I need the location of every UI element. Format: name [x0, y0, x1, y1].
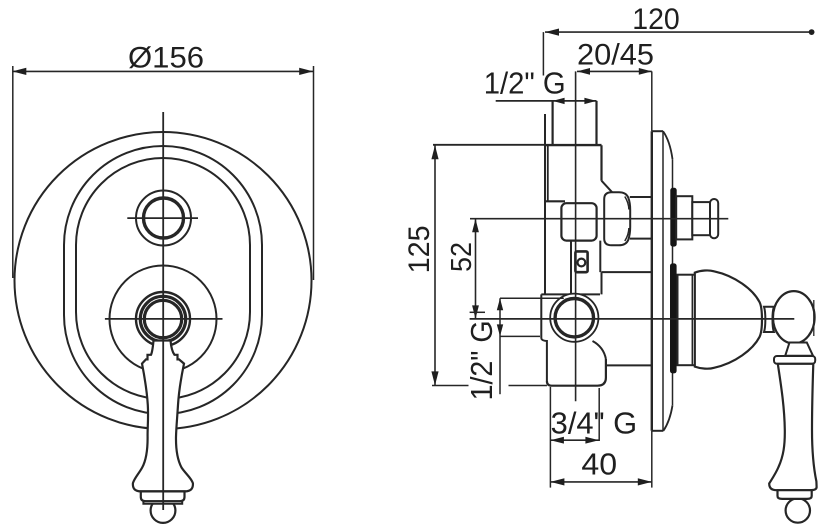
- svg-text:52: 52: [446, 242, 478, 272]
- dimension 125 arrow bottom: [431, 371, 438, 385]
- seal band upper: [670, 188, 676, 247]
- cap dome arc top: [625, 197, 629, 210]
- dimension 20/45 line: [577, 70, 652, 72]
- handle bell: [695, 270, 762, 368]
- lever cap flare: [785, 343, 813, 356]
- wall plate top edge: [652, 130, 663, 132]
- leader arrow down: [497, 324, 503, 336]
- dimension 40 line: [550, 481, 651, 483]
- lever bell step 1: [141, 491, 185, 501]
- lever cap plate: [774, 356, 815, 364]
- hub ring 1: [136, 292, 190, 346]
- lever side outline: [769, 364, 816, 490]
- plate face extension to 40 dim: [651, 431, 653, 488]
- bottom outlet outer circle 3/4G: [550, 294, 598, 342]
- leader top line: [500, 297, 564, 299]
- body chamfer to cap: [602, 181, 613, 193]
- wall plate bevel bottom: [663, 405, 672, 431]
- outlet cap dome: [604, 192, 630, 245]
- dimension Ø156 line: [12, 70, 313, 72]
- vertical centerline / 20-45 extension: [575, 71, 577, 401]
- diverter stem hex: [676, 196, 692, 239]
- lever step side: [778, 490, 812, 499]
- dimension 40 arrow left: [550, 478, 564, 485]
- cap dome arc bottom: [625, 228, 629, 241]
- lower body top edge: [541, 293, 600, 295]
- mounting sleeve: [602, 272, 652, 365]
- body left inner edge: [547, 146, 549, 202]
- lower centerline: [470, 318, 795, 320]
- diverter knob cap: [710, 199, 718, 238]
- wall plate bevel top: [663, 131, 673, 159]
- leader arrow up: [497, 298, 503, 310]
- neck below nut: [571, 241, 600, 295]
- label 1/2 G lower leader vertical: [499, 298, 501, 394]
- diverter knob outer circle: [136, 191, 191, 246]
- bottom outlet inner circle: [555, 299, 593, 337]
- inlet pipe 1/2G top: [553, 101, 597, 145]
- hub horizontal centerline: [105, 318, 223, 320]
- left view vertical centerline: [162, 112, 164, 510]
- dimension 3/4 arrow left: [550, 437, 564, 444]
- hub ring 2: [140, 296, 185, 341]
- wall plate inner line: [662, 131, 664, 431]
- lower body bottom edge: [547, 359, 606, 386]
- dimension 120 dot: [809, 29, 815, 35]
- collar inner edge: [691, 275, 693, 366]
- lever ball tip: [151, 498, 176, 523]
- dimension 120 extension tick: [542, 32, 544, 75]
- outlet nut block: [561, 203, 596, 240]
- leader arrow left: [553, 98, 565, 104]
- wall plate back edge: [672, 159, 674, 405]
- upper centerline: [470, 218, 728, 220]
- lower body left edge: [540, 294, 542, 338]
- dimension 52 line: [475, 219, 477, 319]
- lever handle front outline: [133, 341, 193, 492]
- svg-text:120: 120: [632, 3, 680, 36]
- lower body block fill: [541, 294, 606, 385]
- handle collar: [678, 275, 696, 366]
- wall plate bottom edge: [652, 430, 664, 432]
- dimension 120 line: [545, 31, 812, 33]
- svg-text:20/45: 20/45: [577, 39, 654, 72]
- label 1/2 G top leader: [496, 100, 597, 102]
- seal band lower: [670, 263, 677, 373]
- body left edge long: [544, 114, 546, 294]
- handle pivot ball: [773, 291, 815, 343]
- handle hub circle: [110, 266, 217, 373]
- valve body block: [545, 145, 602, 201]
- dimension 52 bottom tick: [470, 311, 485, 313]
- lower body fillet: [593, 341, 606, 359]
- diverter knob inner circle: [144, 198, 184, 238]
- dimension 3/4 arrow right: [585, 437, 599, 444]
- hub ring 3: [144, 300, 181, 337]
- dimension 3/4 line: [550, 439, 599, 441]
- dimension 120 arrow: [545, 28, 559, 35]
- dimension Ø156 arrow right: [299, 68, 313, 75]
- dimension 20/45 arrow left: [577, 68, 590, 75]
- svg-text:1/2" G: 1/2" G: [484, 67, 566, 101]
- dimension 40 arrow right: [638, 478, 652, 485]
- outer circle (escutcheon rim): [15, 132, 312, 429]
- dimension 52 arrow top: [472, 219, 479, 233]
- diverter stem cylinder: [692, 202, 710, 235]
- dimension Ø156 extension line left: [12, 66, 14, 278]
- dimension Ø156 extension line right: [313, 66, 315, 280]
- svg-text:40: 40: [581, 448, 617, 482]
- 125 bottom extension segments: [432, 385, 469, 387]
- dimension 20/45 right extension: [651, 71, 653, 131]
- leader bottom line: [500, 335, 540, 337]
- plate outer obround: [64, 146, 262, 414]
- plate inner obround: [76, 158, 250, 399]
- svg-text:Ø156: Ø156: [128, 42, 204, 75]
- lower body left step: [541, 339, 547, 382]
- lever ball tip side: [786, 498, 810, 522]
- leader arrow right: [584, 98, 596, 104]
- ball flat facet: [813, 300, 815, 336]
- dimension 20/45 arrow right: [639, 68, 652, 75]
- svg-text:1/2" G: 1/2" G: [465, 320, 499, 400]
- dimension 3/4 extension left: [549, 387, 551, 488]
- dimension 125 line: [434, 145, 436, 385]
- dimension 125 arrow top: [431, 145, 438, 159]
- dimension Ø156 arrow left: [12, 68, 26, 75]
- dimension 3/4 extension right: [598, 388, 600, 441]
- wall plate front face: [651, 131, 653, 431]
- diverter knob horizontal centerline: [127, 217, 198, 219]
- lever bell step 2: [143, 501, 182, 504]
- dimension 52 arrow bottom: [472, 305, 479, 319]
- 125 top extension line / body top edge: [433, 144, 602, 146]
- outlet pipe to plate: [630, 197, 652, 239]
- svg-text:3/4" G: 3/4" G: [551, 406, 638, 441]
- handle neck: [764, 307, 774, 332]
- svg-text:125: 125: [403, 225, 436, 273]
- set screw detail: [575, 251, 587, 272]
